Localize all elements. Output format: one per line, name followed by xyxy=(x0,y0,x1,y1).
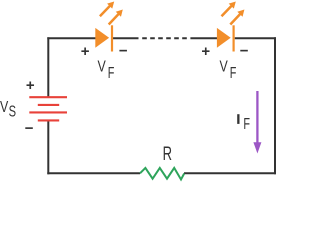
svg-text:−: − xyxy=(119,42,128,59)
wire LED2-to-corner segment xyxy=(235,37,276,39)
LED D2 light arrow lower xyxy=(230,10,244,25)
battery V_S plate short bottom xyxy=(38,119,59,121)
battery V_S plate long xyxy=(29,111,67,113)
wire dashes-to-LED2 segment xyxy=(190,37,217,39)
svg-text:F: F xyxy=(230,64,237,81)
label V_F for D1 xyxy=(97,57,114,81)
LED D1 light arrow upper xyxy=(100,2,114,17)
svg-text:V: V xyxy=(97,57,106,75)
svg-text:V: V xyxy=(0,98,9,116)
LED D2 cathode bar xyxy=(233,25,235,51)
svg-text:−: − xyxy=(25,120,34,137)
LED D1 triangle xyxy=(95,28,109,48)
LED D1 cathode bar xyxy=(111,25,113,51)
resistor R zigzag xyxy=(140,168,184,180)
battery V_S plate long top xyxy=(29,96,67,98)
svg-text:F: F xyxy=(108,64,115,81)
label V_F for D2 xyxy=(219,57,236,81)
wire LED1-to-dashes segment xyxy=(113,37,139,39)
wire bottom-left segment xyxy=(47,172,140,174)
battery V_S plate short xyxy=(38,104,59,106)
wire left upper segment xyxy=(47,37,49,97)
LED D1 light arrow lower xyxy=(109,10,123,25)
svg-text:+: + xyxy=(26,77,35,94)
svg-text:−: − xyxy=(240,42,249,59)
svg-text:+: + xyxy=(81,43,90,60)
svg-text:+: + xyxy=(201,43,210,60)
svg-text:R: R xyxy=(163,142,172,164)
svg-text:S: S xyxy=(9,103,16,120)
label V_S xyxy=(0,98,16,120)
wire bottom-right segment xyxy=(184,172,276,174)
label I_F xyxy=(237,114,250,132)
svg-text:F: F xyxy=(243,115,250,132)
LED D2 triangle xyxy=(217,28,231,48)
wire left lower segment xyxy=(47,120,49,174)
wire dashed segment xyxy=(142,37,188,39)
svg-text:V: V xyxy=(219,57,228,75)
LED D2 light arrow upper xyxy=(222,2,236,17)
wire top-left segment xyxy=(47,37,96,39)
wire right side xyxy=(274,37,276,174)
current arrow I_F xyxy=(253,91,261,154)
